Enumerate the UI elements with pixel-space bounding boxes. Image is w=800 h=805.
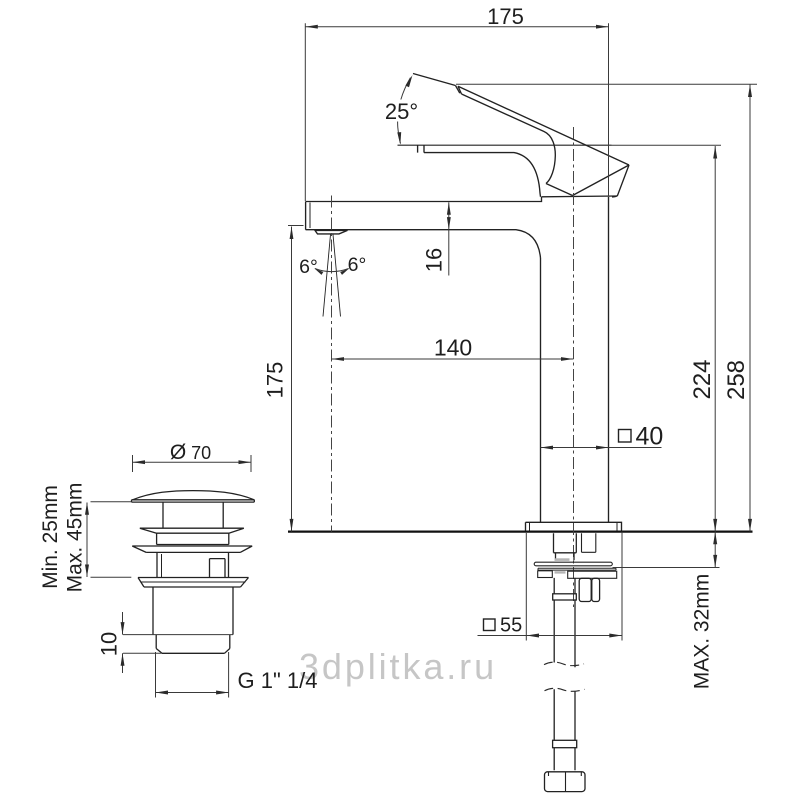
svg-text:6°: 6° bbox=[299, 256, 318, 278]
svg-text:3dplitka.ru: 3dplitka.ru bbox=[299, 646, 497, 687]
svg-text:25°: 25° bbox=[385, 99, 418, 124]
svg-text:140: 140 bbox=[434, 335, 472, 361]
svg-text:MAX. 32mm: MAX. 32mm bbox=[691, 574, 714, 690]
svg-text:6°: 6° bbox=[348, 254, 367, 276]
svg-text:16: 16 bbox=[422, 248, 447, 272]
svg-text:224: 224 bbox=[689, 359, 716, 399]
svg-text:Max. 45mm: Max. 45mm bbox=[64, 483, 87, 593]
svg-text:55: 55 bbox=[500, 615, 522, 637]
svg-text:Min. 25mm: Min. 25mm bbox=[39, 485, 62, 589]
svg-text:40: 40 bbox=[636, 423, 664, 451]
svg-text:G 1" 1/4: G 1" 1/4 bbox=[238, 668, 318, 693]
svg-text:10: 10 bbox=[96, 632, 121, 656]
svg-text:175: 175 bbox=[487, 4, 524, 29]
svg-text:Ø 70: Ø 70 bbox=[170, 441, 211, 464]
svg-text:258: 258 bbox=[723, 360, 750, 400]
svg-text:175: 175 bbox=[262, 362, 287, 399]
